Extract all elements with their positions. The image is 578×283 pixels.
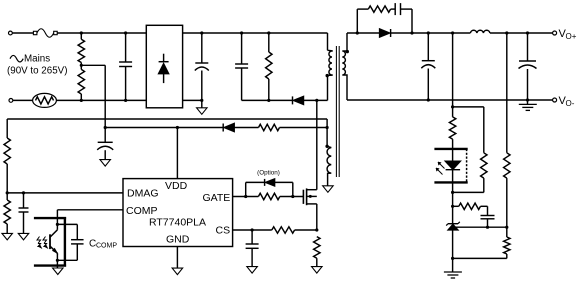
svg-text:DMAG: DMAG [127, 188, 159, 200]
svg-text:(Option): (Option) [257, 170, 280, 177]
svg-text:RT7740PLA: RT7740PLA [149, 216, 206, 228]
svg-text:GND: GND [166, 233, 190, 245]
svg-text:VDD: VDD [165, 180, 188, 192]
svg-text:Mains: Mains [24, 54, 50, 65]
svg-text:CS: CS [216, 224, 231, 236]
svg-text:O-: O- [566, 99, 575, 108]
svg-text:O+: O+ [566, 32, 577, 41]
svg-text:GATE: GATE [203, 192, 231, 204]
svg-text:(90V to 265V): (90V to 265V) [7, 66, 67, 77]
svg-text:COMP: COMP [126, 205, 158, 217]
svg-text:COMP: COMP [96, 242, 117, 249]
